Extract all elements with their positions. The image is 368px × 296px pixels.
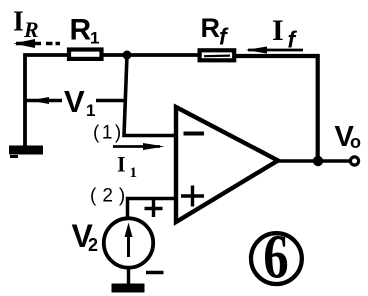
wire: noninverting input to source [128, 199, 177, 220]
wire: R1 to Rf through node [102, 53, 199, 57]
current arrow I_1 [113, 145, 160, 148]
op-amp U1 [176, 107, 278, 222]
voltage arrow V_1 [25, 99, 62, 102]
resistor R1 [69, 50, 102, 59]
op-amp noninverting sign + [181, 186, 204, 207]
svg-text:(2): (2) [90, 186, 131, 207]
svg-text:I: I [272, 14, 284, 47]
wire: node down and right to inverting input [124, 55, 177, 136]
svg-text:2: 2 [88, 235, 98, 255]
terminal V_o (open circle) [350, 157, 358, 165]
svg-text:o: o [350, 132, 361, 152]
node dot (inverting summing node) [123, 51, 132, 60]
svg-text:R: R [201, 13, 221, 43]
svg-text:1: 1 [130, 165, 138, 181]
ground (left) [9, 146, 43, 155]
svg-text:I: I [117, 152, 126, 177]
ground (under V2) [112, 284, 145, 293]
wire: left vertical and top-left segment to R1 [25, 55, 67, 147]
svg-text:V: V [64, 84, 85, 119]
svg-text:(1): (1) [93, 123, 124, 144]
resistor Rf [200, 50, 235, 60]
wire: source bottom to ground [127, 266, 130, 285]
current arrow I_f [248, 49, 303, 52]
svg-text:R: R [23, 17, 39, 42]
wire: Rf to top-right corner down to output node [235, 56, 318, 161]
minus sign (source polarity) [146, 271, 164, 275]
voltage source V2 [104, 218, 153, 267]
output wire [277, 159, 350, 163]
svg-text:R: R [70, 14, 92, 47]
op-amp inverting sign - [184, 132, 205, 136]
node dot (output node) [313, 156, 323, 166]
svg-text:I: I [13, 7, 24, 38]
figure number 6 (circled) [251, 233, 302, 284]
plus sign (source polarity) [145, 200, 163, 217]
svg-text:1: 1 [86, 101, 95, 120]
svg-text:6: 6 [263, 223, 288, 292]
current arrow I_R [16, 42, 60, 45]
svg-text:1: 1 [90, 29, 99, 48]
